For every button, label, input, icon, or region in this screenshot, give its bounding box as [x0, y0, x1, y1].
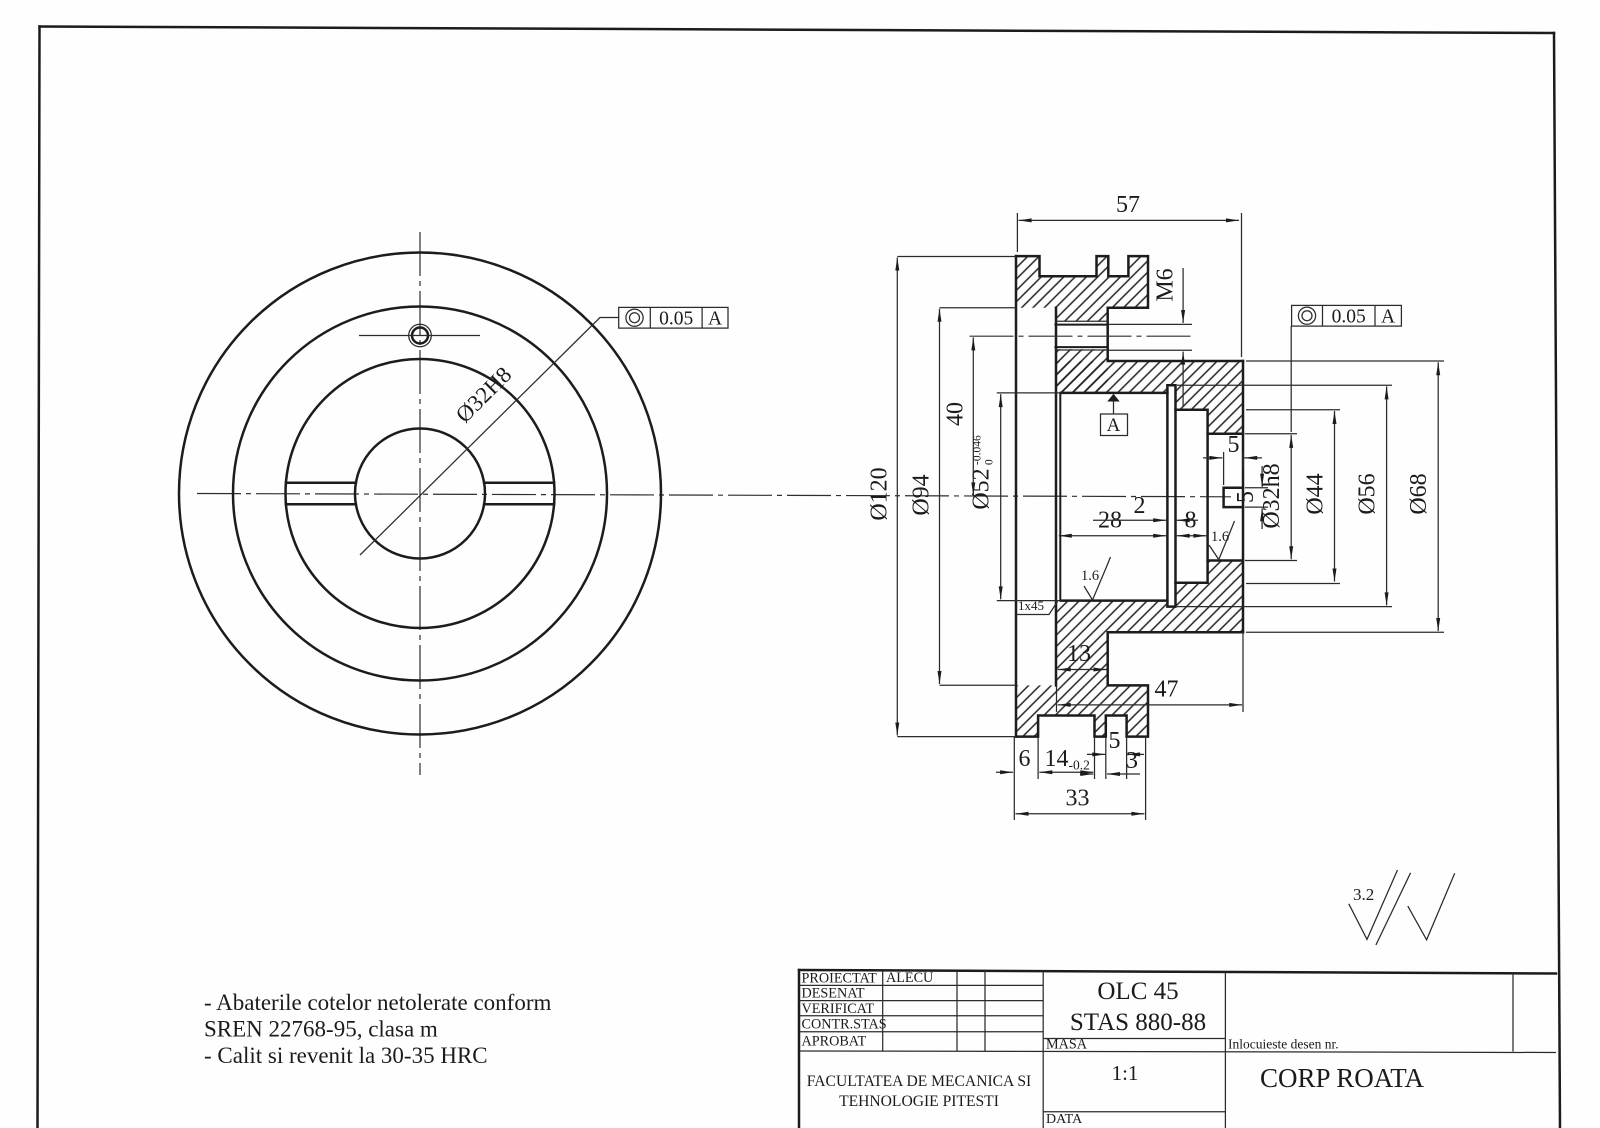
- svg-text:VERIFICAT: VERIFICAT: [802, 1001, 875, 1017]
- dimension 5 slot height: [1233, 466, 1262, 529]
- M6 hole centerline: [970, 335, 1193, 337]
- svg-text:0.05: 0.05: [659, 309, 693, 330]
- svg-text:2: 2: [1134, 493, 1146, 519]
- svg-text:ALECU: ALECU: [886, 970, 933, 986]
- svg-text:8: 8: [1185, 508, 1197, 534]
- svg-text:5: 5: [1228, 432, 1240, 458]
- section hatch rim bottom: [1016, 685, 1148, 736]
- extension lines right diameters: [1246, 360, 1444, 362]
- svg-text:- Calit si revenit la 30-35 HR: - Calit si revenit la 30-35 HRC: [204, 1043, 488, 1068]
- svg-text:-0.046: -0.046: [972, 435, 984, 465]
- M6 hole major diameter lines: [1055, 321, 1107, 350]
- svg-text:DESENAT: DESENAT: [802, 986, 865, 1002]
- dimension 14 -0.2: [1039, 746, 1093, 772]
- svg-text:1.6: 1.6: [1081, 568, 1099, 584]
- svg-text:47: 47: [1155, 677, 1179, 703]
- feature control frame right: [1291, 305, 1401, 432]
- face slot 5x5: [1224, 488, 1243, 507]
- sheet border right: [1554, 33, 1560, 1128]
- svg-text:Ø56: Ø56: [1355, 473, 1381, 514]
- extension lines bottom dims: [1013, 737, 1015, 820]
- bore entry chamfer line: [1059, 393, 1061, 601]
- front view circle D68: [286, 359, 555, 628]
- dimension 8: [1177, 508, 1207, 536]
- groove D56 walls: [1167, 385, 1175, 606]
- feature control frame front view: [619, 307, 728, 329]
- bore D52 bottom line: [1061, 599, 1167, 602]
- dimension 5 bottom groove: [1087, 728, 1144, 754]
- bore D44 lines: [1176, 410, 1208, 583]
- svg-text:5: 5: [1109, 728, 1121, 754]
- svg-text:MASA: MASA: [1046, 1037, 1088, 1053]
- svg-text:CONTR.STAS: CONTR.STAS: [802, 1017, 887, 1033]
- svg-text:SREN 22768-95, clasa m: SREN 22768-95, clasa m: [204, 1017, 438, 1042]
- keyway slot line upper-right: [484, 482, 554, 485]
- svg-text:Ø44: Ø44: [1303, 473, 1329, 514]
- section hatch web top: [1057, 308, 1108, 393]
- section hatch web bottom: [1057, 632, 1108, 685]
- dimension 28: [1059, 508, 1166, 536]
- M6 hole inner circle: [412, 328, 428, 344]
- section left face D120: [1015, 256, 1018, 736]
- dimension D32h8: [1259, 435, 1291, 559]
- svg-text:A: A: [708, 309, 722, 330]
- svg-text:0: 0: [984, 459, 996, 465]
- svg-text:57: 57: [1116, 192, 1140, 218]
- keyway slot line lower-right: [484, 503, 554, 506]
- title block frame: [799, 970, 1556, 1128]
- svg-text:PROIECTAT: PROIECTAT: [802, 971, 878, 987]
- svg-text:DATA: DATA: [1046, 1112, 1083, 1127]
- dimension 33: [1016, 786, 1145, 814]
- dimension D120: [867, 258, 898, 736]
- dimension D56: [1355, 386, 1387, 605]
- main horizontal centerline: [197, 494, 1231, 497]
- title block texts: [802, 970, 1339, 1127]
- bore D32 lines: [1208, 434, 1243, 561]
- svg-text:33: 33: [1066, 786, 1090, 812]
- surface finish 1.6 on D32 bore: [1209, 521, 1235, 560]
- section hatch hub bottom wall: [1057, 561, 1244, 633]
- front view circle D94: [233, 307, 607, 681]
- chamfer label 1x45: [1016, 598, 1058, 615]
- svg-text:3.2: 3.2: [1353, 885, 1374, 904]
- dimension 3 land: [1080, 748, 1140, 774]
- dimension 13: [1058, 641, 1107, 670]
- svg-text:Ø120: Ø120: [867, 467, 893, 520]
- dimension M6: [1153, 268, 1184, 406]
- svg-text:Inlocuieste desen nr.: Inlocuieste desen nr.: [1228, 1037, 1339, 1052]
- svg-text:Ø68: Ø68: [1406, 473, 1432, 514]
- svg-text:14: 14: [1045, 746, 1069, 772]
- dimension 6: [996, 746, 1031, 772]
- extension lines left diameters: [897, 256, 1016, 258]
- extension lines 47 dim: [1242, 632, 1244, 712]
- front view vertical centerline: [419, 232, 421, 775]
- svg-text:-0.2: -0.2: [1069, 758, 1090, 773]
- datum A symbol: [1101, 394, 1128, 436]
- svg-text:Ø94: Ø94: [909, 474, 935, 515]
- dimension D44: [1303, 411, 1335, 582]
- svg-text:STAS 880-88: STAS 880-88: [1070, 1009, 1206, 1036]
- section rim top profile with grooves: [1016, 256, 1243, 361]
- surface finish 1.6 on D52 bore: [1081, 557, 1111, 600]
- section right face: [1242, 361, 1245, 632]
- dimension D94: [909, 309, 940, 684]
- svg-text:6: 6: [1019, 746, 1031, 772]
- extension lines slot 5x5: [1223, 452, 1225, 485]
- svg-text:APROBAT: APROBAT: [802, 1034, 867, 1050]
- M6 hole white cut: [1055, 321, 1107, 349]
- svg-text:Ø32h8: Ø32h8: [1259, 463, 1285, 528]
- front view bore circle D32: [355, 429, 485, 559]
- svg-text:FACULTATEA DE MECANICA SI: FACULTATEA DE MECANICA SI: [807, 1073, 1031, 1090]
- svg-text:13: 13: [1067, 641, 1091, 667]
- M6 hole minor diameter lines: [1055, 325, 1107, 348]
- notes text: [204, 990, 552, 1068]
- dimension D68: [1406, 362, 1438, 631]
- svg-text:A: A: [1381, 307, 1395, 328]
- svg-text:- Abaterile cotelor netolerate: - Abaterile cotelor netolerate conform: [204, 990, 552, 1015]
- extension lines 57 dim: [1016, 213, 1018, 252]
- section hatch hub top wall: [1057, 361, 1244, 434]
- dimension 5 slot depth: [1203, 432, 1262, 458]
- dimension 47: [1058, 677, 1243, 705]
- svg-text:0.05: 0.05: [1332, 307, 1366, 328]
- dimension 40: [943, 337, 974, 495]
- M6 hole centerline: [359, 335, 480, 337]
- sheet border left: [38, 27, 40, 1128]
- section hatch rim top: [1016, 256, 1148, 308]
- front view outer circle D120: [179, 253, 661, 735]
- svg-text:40: 40: [943, 402, 969, 426]
- svg-text:3: 3: [1126, 748, 1138, 774]
- svg-text:5: 5: [1233, 491, 1259, 503]
- svg-text:OLC 45: OLC 45: [1097, 978, 1178, 1005]
- keyway slot line lower-left: [286, 503, 356, 506]
- general roughness 3.2 symbol: [1349, 870, 1455, 945]
- section rim bottom profile with grooves: [1016, 632, 1243, 736]
- sheet border top: [40, 27, 1555, 34]
- svg-text:1.6: 1.6: [1211, 529, 1229, 545]
- dimension 57: [1019, 192, 1239, 220]
- dimension 2 groove: [1093, 493, 1198, 520]
- M6 hole thread outer circle: [409, 324, 432, 347]
- keyway slot line upper-left: [286, 482, 356, 485]
- bore D52 top line: [1061, 392, 1167, 395]
- dimension D52: [969, 394, 1001, 599]
- svg-text:TEHNOLOGIE PITESTI: TEHNOLOGIE PITESTI: [839, 1093, 999, 1110]
- section hub/web left face: [1055, 308, 1058, 686]
- svg-text:A: A: [1107, 415, 1121, 436]
- svg-text:1:1: 1:1: [1112, 1061, 1139, 1085]
- leader line D32H8: [360, 318, 619, 556]
- svg-text:Ø52: Ø52: [969, 468, 995, 509]
- M6 hole extension lines: [1108, 324, 1192, 350]
- extension lines D32h8: [1245, 433, 1297, 435]
- svg-text:CORP ROATA: CORP ROATA: [1260, 1063, 1425, 1093]
- svg-text:M6: M6: [1153, 268, 1179, 301]
